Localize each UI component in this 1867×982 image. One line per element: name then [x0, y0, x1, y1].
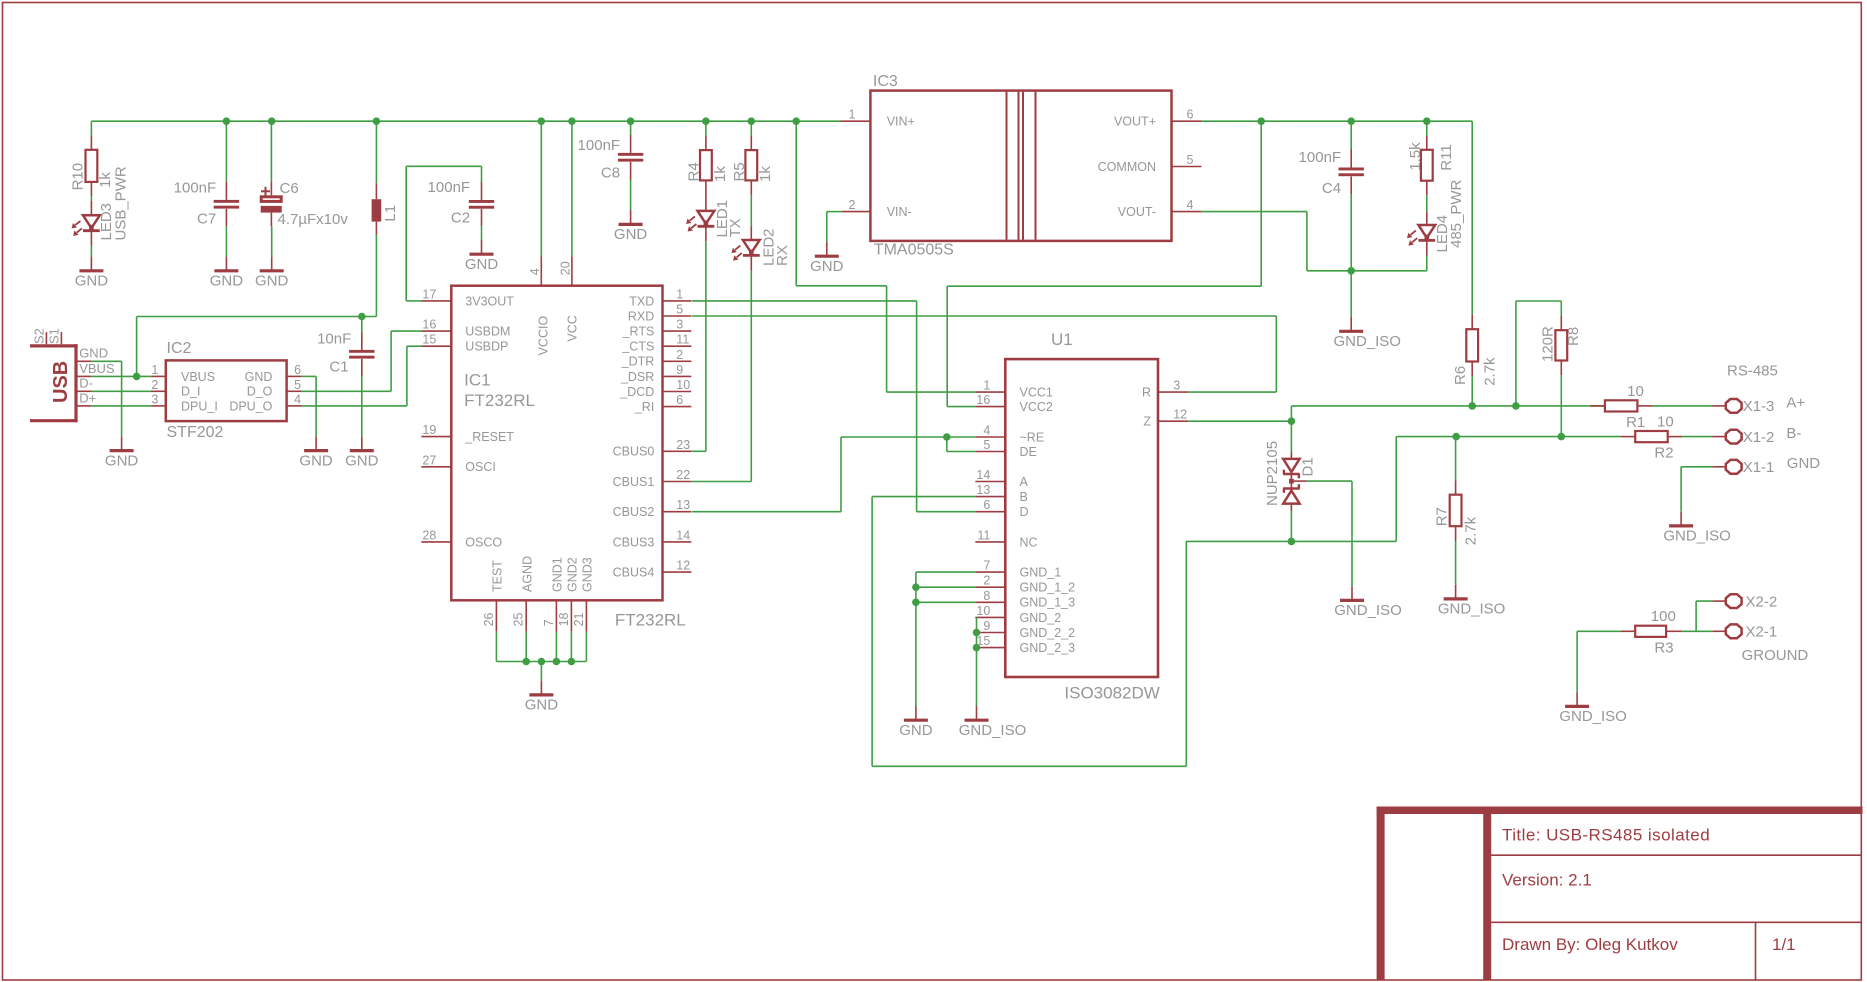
svg-text:_RESET: _RESET: [464, 430, 514, 444]
svg-text:4: 4: [1187, 198, 1194, 212]
svg-text:13: 13: [676, 498, 690, 512]
svg-text:GND: GND: [1787, 455, 1821, 472]
svg-text:B: B: [1020, 490, 1028, 504]
svg-text:GND: GND: [210, 273, 244, 290]
svg-text:28: 28: [422, 528, 436, 542]
svg-text:R8: R8: [1565, 327, 1582, 346]
svg-text:10: 10: [976, 604, 990, 618]
svg-text:6: 6: [1187, 108, 1194, 122]
svg-text:GND2: GND2: [566, 557, 580, 592]
svg-text:GND: GND: [105, 452, 139, 469]
svg-text:23: 23: [676, 438, 690, 452]
svg-text:_RI: _RI: [634, 400, 654, 414]
svg-text:USBDM: USBDM: [465, 325, 510, 339]
svg-text:7: 7: [542, 619, 556, 626]
svg-text:1: 1: [151, 363, 158, 377]
svg-text:9: 9: [676, 363, 683, 377]
svg-text:C1: C1: [329, 359, 348, 376]
svg-text:4: 4: [528, 268, 542, 275]
svg-text:26: 26: [482, 612, 496, 626]
svg-text:2: 2: [849, 198, 856, 212]
svg-text:25: 25: [512, 612, 526, 626]
svg-text:STF202: STF202: [167, 424, 224, 441]
svg-text:18: 18: [557, 612, 571, 626]
svg-text:16: 16: [422, 318, 436, 332]
svg-text:CBUS1: CBUS1: [613, 475, 655, 489]
svg-text:GND: GND: [299, 452, 333, 469]
svg-text:VIN+: VIN+: [887, 115, 915, 129]
svg-text:R: R: [1142, 386, 1151, 400]
svg-text:VBUS: VBUS: [79, 361, 115, 376]
svg-text:13: 13: [976, 483, 990, 497]
svg-text:CBUS4: CBUS4: [613, 566, 655, 580]
svg-text:GND_1: GND_1: [1020, 566, 1062, 580]
svg-text:_DCD: _DCD: [619, 385, 654, 399]
svg-text:D-: D-: [79, 376, 93, 391]
svg-text:ISO3082DW: ISO3082DW: [1064, 684, 1159, 703]
svg-text:IC2: IC2: [167, 340, 192, 357]
svg-text:14: 14: [676, 528, 690, 542]
svg-text:10nF: 10nF: [317, 331, 351, 348]
svg-text:USBDP: USBDP: [465, 340, 508, 354]
svg-text:U1: U1: [1051, 330, 1073, 349]
svg-text:TXD: TXD: [629, 294, 654, 308]
svg-text:VOUT+: VOUT+: [1114, 115, 1156, 129]
svg-text:20: 20: [559, 261, 573, 275]
svg-text:GND: GND: [614, 226, 648, 243]
svg-text:GND: GND: [79, 346, 108, 361]
svg-text:1k: 1k: [757, 166, 774, 182]
svg-text:R1: R1: [1626, 414, 1645, 431]
svg-text:R7: R7: [1433, 507, 1450, 526]
svg-text:GND_ISO: GND_ISO: [1333, 333, 1401, 350]
svg-text:S1: S1: [47, 328, 62, 344]
svg-text:IC3: IC3: [873, 73, 898, 90]
svg-text:15: 15: [976, 634, 990, 648]
svg-text:R11: R11: [1438, 144, 1455, 170]
svg-text:TEST: TEST: [491, 560, 505, 592]
svg-text:100: 100: [1651, 608, 1676, 625]
svg-text:CBUS3: CBUS3: [613, 535, 655, 549]
svg-text:C2: C2: [451, 210, 470, 227]
svg-text:GND: GND: [465, 256, 499, 273]
svg-text:1k: 1k: [712, 166, 729, 182]
svg-text:VIN-: VIN-: [887, 205, 912, 219]
svg-text:X2-1: X2-1: [1746, 624, 1778, 641]
svg-text:GND_ISO: GND_ISO: [1334, 602, 1402, 619]
svg-text:USB_PWR: USB_PWR: [112, 166, 129, 240]
svg-text:D+: D+: [79, 390, 96, 405]
svg-text:GND: GND: [255, 273, 289, 290]
svg-text:_DTR: _DTR: [621, 355, 655, 369]
svg-text:GND_ISO: GND_ISO: [1559, 708, 1627, 725]
svg-text:5: 5: [983, 438, 990, 452]
svg-text:Drawn By: Oleg Kutkov: Drawn By: Oleg Kutkov: [1502, 935, 1678, 954]
svg-text:10: 10: [1657, 414, 1674, 431]
svg-text:GND: GND: [525, 697, 559, 714]
svg-text:4.7µFx10v: 4.7µFx10v: [278, 211, 349, 228]
svg-text:6: 6: [676, 393, 683, 407]
svg-text:A+: A+: [1786, 395, 1805, 412]
svg-text:DPU_O: DPU_O: [229, 399, 272, 413]
svg-text:_DSR: _DSR: [620, 370, 654, 384]
svg-text:8: 8: [983, 589, 990, 603]
svg-text:R3: R3: [1654, 639, 1673, 656]
svg-text:X1-1: X1-1: [1743, 459, 1775, 476]
svg-text:C8: C8: [601, 165, 620, 182]
svg-text:D1: D1: [1300, 457, 1317, 476]
svg-text:C7: C7: [197, 211, 216, 228]
svg-text:C6: C6: [280, 180, 299, 197]
svg-text:Z: Z: [1143, 415, 1151, 429]
svg-text:17: 17: [422, 287, 436, 301]
svg-text:16: 16: [976, 393, 990, 407]
svg-text:GND: GND: [75, 273, 109, 290]
svg-text:GND_2_2: GND_2_2: [1020, 626, 1076, 640]
svg-text:1/1: 1/1: [1772, 935, 1796, 954]
svg-text:14: 14: [976, 468, 990, 482]
svg-text:4: 4: [983, 424, 990, 438]
svg-text:NUP2105: NUP2105: [1264, 441, 1281, 506]
svg-text:DE: DE: [1020, 445, 1037, 459]
svg-text:C4: C4: [1322, 180, 1341, 197]
svg-text:7: 7: [983, 559, 990, 573]
svg-text:10: 10: [1627, 383, 1644, 400]
svg-text:3: 3: [1173, 379, 1180, 393]
svg-text:GND3: GND3: [581, 557, 595, 592]
svg-text:DPU_I: DPU_I: [181, 399, 218, 413]
svg-text:GROUND: GROUND: [1742, 647, 1809, 664]
svg-text:OSCI: OSCI: [465, 460, 496, 474]
svg-text:OSCO: OSCO: [465, 535, 502, 549]
svg-text:GND_ISO: GND_ISO: [1663, 528, 1731, 545]
svg-text:D_O: D_O: [247, 385, 273, 399]
svg-text:27: 27: [422, 453, 436, 467]
svg-text:12: 12: [676, 559, 690, 573]
svg-text:GND: GND: [810, 258, 844, 275]
svg-text:12: 12: [1173, 408, 1187, 422]
svg-text:22: 22: [676, 468, 690, 482]
svg-text:NC: NC: [1020, 535, 1038, 549]
svg-text:Version: 2.1: Version: 2.1: [1502, 871, 1592, 890]
svg-text:VOUT-: VOUT-: [1118, 205, 1156, 219]
svg-text:VCC2: VCC2: [1020, 400, 1053, 414]
svg-text:AGND: AGND: [520, 556, 534, 592]
svg-text:1: 1: [676, 287, 683, 301]
svg-text:1k: 1k: [97, 172, 114, 188]
svg-text:R10: R10: [69, 163, 86, 191]
svg-text:GND_1_2: GND_1_2: [1020, 581, 1076, 595]
svg-text:100nF: 100nF: [578, 137, 621, 154]
svg-text:VCC: VCC: [565, 315, 579, 341]
svg-text:3: 3: [151, 392, 158, 406]
svg-text:2: 2: [676, 348, 683, 362]
svg-text:2: 2: [983, 574, 990, 588]
svg-text:R4: R4: [685, 162, 702, 181]
svg-text:6: 6: [294, 363, 301, 377]
svg-text:Title: USB-RS485 isolated: Title: USB-RS485 isolated: [1502, 825, 1710, 844]
svg-text:USB: USB: [50, 361, 72, 403]
svg-text:RS-485: RS-485: [1727, 363, 1778, 380]
svg-text:A: A: [1020, 475, 1029, 489]
svg-text:GND_2_3: GND_2_3: [1020, 641, 1076, 655]
svg-text:2.7k: 2.7k: [1462, 516, 1479, 545]
svg-text:X1-3: X1-3: [1743, 398, 1775, 415]
svg-text:~RE: ~RE: [1020, 430, 1045, 444]
svg-text:FT232RL: FT232RL: [615, 611, 686, 630]
svg-text:GND_ISO: GND_ISO: [1438, 601, 1506, 618]
svg-text:2.7k: 2.7k: [1481, 357, 1498, 386]
svg-text:R6: R6: [1452, 366, 1469, 385]
svg-text:GND_ISO: GND_ISO: [959, 722, 1027, 739]
svg-text:RXD: RXD: [628, 309, 654, 323]
svg-text:D: D: [1020, 505, 1029, 519]
svg-text:VBUS: VBUS: [181, 370, 215, 384]
svg-text:120R: 120R: [1539, 326, 1556, 362]
svg-text:COMMON: COMMON: [1098, 160, 1156, 174]
svg-text:CBUS2: CBUS2: [613, 505, 655, 519]
svg-text:TX: TX: [727, 218, 744, 237]
svg-text:100nF: 100nF: [1299, 149, 1342, 166]
svg-text:21: 21: [572, 612, 586, 626]
svg-text:10: 10: [676, 378, 690, 392]
svg-text:B-: B-: [1786, 425, 1801, 442]
svg-text:4: 4: [294, 392, 301, 406]
svg-text:X2-2: X2-2: [1746, 593, 1778, 610]
svg-text:TMA0505S: TMA0505S: [874, 242, 954, 259]
svg-text:R5: R5: [731, 162, 748, 181]
svg-text:100nF: 100nF: [174, 180, 217, 197]
svg-text:1.5k: 1.5k: [1407, 142, 1424, 171]
svg-text:RX: RX: [774, 245, 791, 266]
svg-text:_CTS: _CTS: [621, 340, 654, 354]
svg-text:IC1: IC1: [464, 371, 490, 390]
svg-text:9: 9: [983, 619, 990, 633]
svg-text:D_I: D_I: [181, 385, 200, 399]
svg-text:VCC1: VCC1: [1020, 386, 1053, 400]
svg-text:2: 2: [151, 378, 158, 392]
svg-text:485_PWR: 485_PWR: [1448, 179, 1465, 248]
svg-text:R2: R2: [1654, 445, 1673, 462]
svg-text:_RTS: _RTS: [622, 325, 655, 339]
svg-text:VCCIO: VCCIO: [537, 316, 551, 356]
svg-text:CBUS0: CBUS0: [613, 445, 655, 459]
svg-text:1: 1: [849, 108, 856, 122]
svg-text:FT232RL: FT232RL: [464, 391, 535, 410]
svg-text:GND: GND: [345, 452, 379, 469]
svg-text:5: 5: [676, 303, 683, 317]
svg-text:S2: S2: [32, 328, 47, 344]
svg-text:GND_2: GND_2: [1020, 611, 1062, 625]
svg-text:1: 1: [983, 379, 990, 393]
svg-text:5: 5: [294, 378, 301, 392]
svg-text:X1-2: X1-2: [1743, 429, 1775, 446]
svg-text:3V3OUT: 3V3OUT: [465, 294, 514, 308]
svg-text:3: 3: [676, 318, 683, 332]
svg-text:5: 5: [1187, 153, 1194, 167]
svg-text:11: 11: [977, 528, 990, 542]
svg-text:L1: L1: [382, 205, 399, 222]
svg-text:GND: GND: [899, 722, 933, 739]
svg-text:100nF: 100nF: [428, 179, 471, 196]
svg-text:19: 19: [422, 423, 436, 437]
svg-text:15: 15: [422, 333, 436, 347]
svg-text:GND_1_3: GND_1_3: [1020, 596, 1076, 610]
svg-text:6: 6: [983, 498, 990, 512]
svg-text:GND1: GND1: [551, 557, 565, 592]
svg-text:GND: GND: [245, 370, 273, 384]
svg-text:11: 11: [676, 333, 689, 347]
